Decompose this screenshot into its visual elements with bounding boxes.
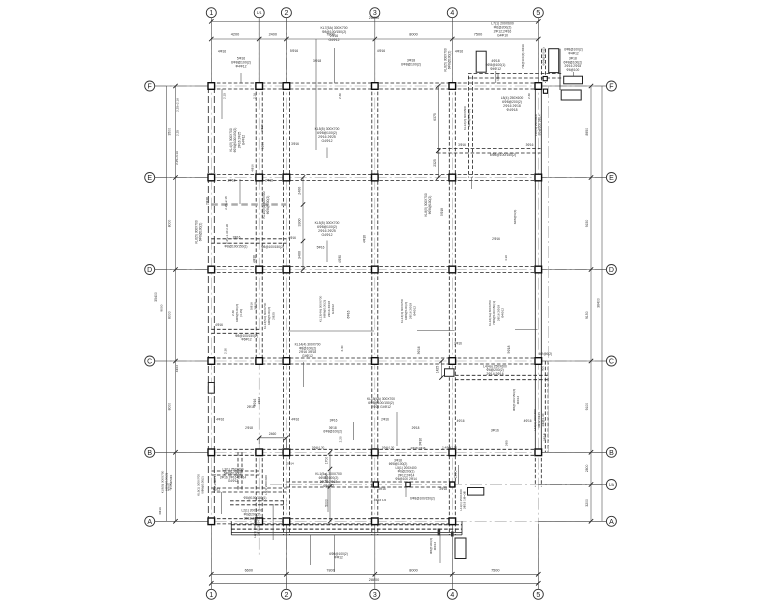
grid bubble 4 (top) bbox=[447, 8, 457, 18]
svg-text:4Φ18: 4Φ18 bbox=[363, 235, 367, 243]
svg-text:4Φ16: 4Φ16 bbox=[175, 364, 179, 372]
svg-text:1425: 1425 bbox=[436, 366, 440, 374]
leader KL1 B-A bbox=[327, 489, 329, 513]
svg-text:D: D bbox=[609, 267, 614, 274]
column 1/A bbox=[208, 518, 215, 525]
eave overhang line right of axis 5 bbox=[547, 86, 549, 452]
svg-text:6Φ8@100(2): 6Φ8@100(2) bbox=[323, 430, 342, 434]
svg-text:4Φ16: 4Φ16 bbox=[253, 255, 257, 263]
leader line below corridor bbox=[334, 535, 336, 572]
axis grid line 1 (vertical) bbox=[210, 18, 212, 590]
grid bubble 1/1 (top) bbox=[254, 8, 264, 18]
svg-text:F: F bbox=[609, 84, 613, 91]
axis grid line C (horizontal) bbox=[155, 360, 607, 362]
svg-text:3Φ16: 3Φ16 bbox=[417, 346, 421, 354]
svg-text:4Φ16: 4Φ16 bbox=[377, 49, 385, 53]
secondary beam y502.8 (bay 1-2 B-A) bbox=[230, 500, 286, 502]
svg-text:L6(1) 200X400: L6(1) 200X400 bbox=[264, 475, 268, 495]
svg-text:2Φ18: 2Φ18 bbox=[228, 179, 236, 183]
leader line bay 2-3 D-C down bbox=[303, 362, 305, 387]
svg-text:8000: 8000 bbox=[167, 311, 171, 319]
column 4/1-A bbox=[450, 482, 455, 487]
interior dim 1425 (C to beam) bbox=[441, 361, 443, 378]
axis grid line 1/1 (vertical) bbox=[258, 18, 260, 556]
axis grid line 3 (vertical) bbox=[374, 18, 376, 590]
svg-text:4: 4 bbox=[450, 592, 454, 599]
svg-text:9100: 9100 bbox=[585, 403, 589, 411]
column 5/F bbox=[535, 83, 542, 90]
column 5/E bbox=[535, 174, 542, 181]
column 2/D bbox=[283, 266, 290, 273]
svg-text:4200: 4200 bbox=[231, 32, 239, 36]
grid bubble A (left) bbox=[145, 516, 155, 526]
svg-text:6Φ8@100(2): 6Φ8@100(2) bbox=[201, 476, 205, 493]
svg-text:28800: 28800 bbox=[369, 578, 380, 582]
grid bubble D (right) bbox=[606, 265, 616, 275]
grid bubble 1/A (right) bbox=[606, 480, 616, 490]
right dimension chain lines bbox=[590, 86, 592, 521]
svg-text:4Φ16: 4Φ16 bbox=[455, 50, 463, 54]
roof extension wall x560 bbox=[559, 49, 561, 90]
grid bubble A (right) bbox=[606, 516, 616, 526]
top label leader x334 bbox=[334, 48, 336, 83]
svg-text:2000: 2000 bbox=[453, 470, 457, 478]
svg-text:6375: 6375 bbox=[433, 113, 437, 121]
svg-text:6Φ@0(2): 6Φ@0(2) bbox=[539, 352, 552, 356]
grid bubble 2 (top) bbox=[281, 8, 291, 18]
svg-text:2Φ16: 2Φ16 bbox=[492, 237, 500, 241]
svg-text:2Φ16: 2Φ16 bbox=[206, 197, 210, 205]
svg-text:8000: 8000 bbox=[167, 403, 171, 411]
svg-text:28800: 28800 bbox=[369, 16, 380, 20]
svg-text:2Φ18 2Φ16: 2Φ18 2Φ16 bbox=[410, 446, 425, 450]
leader line D-C right wall bbox=[515, 329, 538, 331]
top extension lines from bubbles bbox=[210, 18, 212, 83]
svg-text:6Φ8@100(2): 6Φ8@100(2) bbox=[266, 196, 270, 215]
svg-text:6Φ8@100(2): 6Φ8@100(2) bbox=[448, 51, 452, 70]
svg-text:4.30: 4.30 bbox=[504, 255, 508, 261]
svg-text:F: F bbox=[148, 84, 152, 91]
column 5/C bbox=[535, 358, 542, 365]
svg-text:ΦΦ12: ΦΦ12 bbox=[516, 396, 520, 405]
dim 2000 (below B at axis 4) bbox=[458, 465, 460, 484]
grid bubble F (right) bbox=[606, 81, 616, 91]
svg-text:2460: 2460 bbox=[269, 432, 277, 436]
column 3/E bbox=[372, 174, 379, 181]
svg-text:G4Φ12: G4Φ12 bbox=[302, 354, 313, 358]
grid bubble 5 (top) bbox=[533, 8, 543, 18]
svg-text:6Φ8@0(2): 6Φ8@0(2) bbox=[513, 210, 517, 225]
stair opening rect 2 (above F) bbox=[549, 49, 559, 73]
svg-text:6600: 6600 bbox=[245, 569, 253, 573]
column 4/E bbox=[449, 174, 456, 181]
svg-text:2.30: 2.30 bbox=[527, 93, 531, 99]
bottom extension lines to bubbles bbox=[210, 524, 212, 589]
svg-text:1/A: 1/A bbox=[609, 483, 615, 487]
column 1/E bbox=[208, 174, 215, 181]
svg-text:8000: 8000 bbox=[409, 569, 417, 573]
svg-text:4: 4 bbox=[450, 10, 454, 17]
svg-text:2400: 2400 bbox=[298, 187, 302, 195]
svg-text:2Φ18: 2Φ18 bbox=[412, 426, 420, 430]
svg-text:2.25Φ5ΦX: 2.25Φ5ΦX bbox=[169, 475, 173, 490]
beam along axis E bbox=[211, 174, 538, 176]
column 1/B bbox=[208, 449, 215, 456]
svg-text:3Φ16: 3Φ16 bbox=[458, 143, 466, 147]
wall beam along axis 1 bbox=[207, 86, 209, 521]
secondary beam below C (bay 4-5) bbox=[455, 374, 548, 376]
leader KL15 C-B bbox=[396, 412, 398, 446]
grid bubble B (left) bbox=[145, 447, 155, 457]
equipment pad rect (F right) bbox=[564, 76, 583, 84]
dim 2460 (bay 1-2 C-B) bbox=[259, 437, 286, 439]
secondary beam y241 (bay 1-2) bbox=[211, 238, 286, 240]
svg-text:6Φ8@100/150(2): 6Φ8@100/150(2) bbox=[410, 497, 435, 501]
svg-text:G4Φ10: G4Φ10 bbox=[497, 34, 508, 38]
svg-text:2Φ18: 2Φ18 bbox=[265, 179, 273, 183]
equipment pad rect 2 (below F right) bbox=[561, 90, 581, 100]
svg-text:Φ6@100: Φ6@100 bbox=[566, 68, 579, 72]
svg-text:4Φ16: 4Φ16 bbox=[524, 419, 532, 423]
svg-text:E: E bbox=[147, 175, 152, 182]
svg-text:3Φ16: 3Φ16 bbox=[378, 487, 386, 491]
svg-text:9150: 9150 bbox=[585, 220, 589, 228]
svg-text:2.25+3.16: 2.25+3.16 bbox=[175, 151, 179, 165]
svg-text:9150: 9150 bbox=[585, 311, 589, 319]
svg-text:6Φ8@200(2): 6Φ8@200(2) bbox=[467, 109, 471, 127]
leader line bay 2-3 D-C bbox=[288, 330, 374, 332]
svg-text:2Φ16: 2Φ16 bbox=[261, 141, 265, 149]
top label leader x241 bbox=[240, 73, 242, 83]
svg-text:G4Φ12: G4Φ12 bbox=[329, 38, 340, 42]
axis grid line B (horizontal) bbox=[155, 451, 607, 453]
svg-text:A: A bbox=[609, 519, 614, 526]
column 3/1-A bbox=[373, 482, 378, 487]
svg-text:4Φ16: 4Φ16 bbox=[288, 236, 296, 240]
grid bubble E (right) bbox=[606, 173, 616, 183]
grid bubble C (left) bbox=[145, 356, 155, 366]
top label leader x573 bbox=[573, 72, 575, 76]
axis grid line 4 (vertical) bbox=[451, 18, 453, 590]
beam along axis D bbox=[211, 266, 538, 268]
beam along axis 1/A bbox=[286, 481, 455, 483]
svg-text:Φ8@100/150(2): Φ8@100/150(2) bbox=[261, 245, 284, 249]
grid bubble E (left) bbox=[145, 173, 155, 183]
svg-text:Φ8@100/150(1): Φ8@100/150(1) bbox=[225, 245, 248, 249]
svg-text:2Φ14;2Φ16: 2Φ14;2Φ16 bbox=[486, 372, 503, 376]
axis grid line 5 (vertical) bbox=[537, 18, 539, 590]
svg-text:4Φ16: 4Φ16 bbox=[251, 164, 255, 172]
axis grid line E (horizontal) bbox=[155, 177, 607, 179]
svg-text:2800: 2800 bbox=[585, 465, 589, 473]
wall stub square b bbox=[543, 89, 547, 93]
grid bubble D (left) bbox=[145, 265, 155, 275]
svg-text:2Φ25 G4Φ12: 2Φ25 G4Φ12 bbox=[371, 405, 391, 409]
svg-text:2Φ16: 2Φ16 bbox=[454, 342, 462, 346]
right extension lines to bubbles bbox=[538, 85, 606, 87]
grid bubble F (left) bbox=[145, 81, 155, 91]
grid bubble B (right) bbox=[606, 447, 616, 457]
leader line bay 3-4 D-C bbox=[417, 330, 455, 332]
svg-text:G4Φ12: G4Φ12 bbox=[331, 304, 335, 314]
column 1/1/C bbox=[256, 358, 263, 365]
svg-text:G4Φ12: G4Φ12 bbox=[322, 139, 333, 143]
svg-text:C: C bbox=[147, 359, 152, 366]
top segment dimension line bbox=[211, 38, 538, 40]
svg-text:36400: 36400 bbox=[597, 298, 601, 308]
axis grid line 1/A (horizontal) bbox=[270, 484, 606, 486]
column 1/1/B bbox=[256, 449, 263, 456]
secondary beam x546.7 (C-B) bbox=[544, 361, 546, 452]
leader line x316 (top) bbox=[315, 39, 317, 150]
svg-text:2.25Φ2.14: 2.25Φ2.14 bbox=[213, 474, 217, 488]
svg-text:2: 2 bbox=[284, 592, 288, 599]
column 3/B bbox=[372, 449, 379, 456]
grid bubble C (right) bbox=[606, 356, 616, 366]
grid bubble 5 (bottom) bbox=[533, 589, 543, 599]
leader line below corridor 3 bbox=[439, 535, 441, 563]
top label leader x495 bbox=[495, 71, 497, 83]
svg-text:5Φ@200 2Φ14: 5Φ@200 2Φ14 bbox=[538, 114, 542, 135]
grid bubble 3 (top) bbox=[370, 8, 380, 18]
column 2/B bbox=[283, 449, 290, 456]
column 3/A bbox=[372, 518, 379, 525]
svg-text:6Φ8@100(2): 6Φ8@100(2) bbox=[389, 462, 408, 466]
svg-text:2Φ18: 2Φ18 bbox=[245, 426, 253, 430]
grid bubble 2 (bottom) bbox=[281, 589, 291, 599]
svg-text:3: 3 bbox=[373, 592, 377, 599]
column 3/D bbox=[372, 266, 379, 273]
svg-text:2.25+2.18: 2.25+2.18 bbox=[224, 196, 228, 210]
beam along axis 4 bbox=[448, 86, 450, 535]
beam along axis 1/1 (B-A) bbox=[255, 452, 257, 521]
svg-text:Φ4Φ12: Φ4Φ12 bbox=[413, 306, 417, 316]
svg-text:G4Φ12: G4Φ12 bbox=[242, 135, 246, 146]
svg-text:3Φ16: 3Φ16 bbox=[526, 143, 534, 147]
svg-text:2Φ@1.30: 2Φ@1.30 bbox=[382, 446, 395, 450]
column 4/B bbox=[449, 449, 456, 456]
grid bubble 1 (top) bbox=[206, 8, 216, 18]
grid bubble 1 (bottom) bbox=[206, 589, 216, 599]
grid bubble 4 (bottom) bbox=[447, 589, 457, 599]
svg-text:2.25+2.16: 2.25+2.16 bbox=[176, 98, 180, 112]
beam along axis 1/1 (F-C) bbox=[255, 86, 257, 361]
roof extension wall verticals bbox=[541, 49, 543, 83]
svg-text:1600: 1600 bbox=[496, 74, 500, 81]
svg-text:7500: 7500 bbox=[491, 569, 499, 573]
svg-text:5Φ18: 5Φ18 bbox=[507, 345, 511, 353]
svg-text:8950: 8950 bbox=[585, 128, 589, 136]
beam along axis F bbox=[211, 82, 538, 84]
svg-text:2Φ5: 2Φ5 bbox=[505, 440, 509, 446]
svg-text:2Φ18 1Φ=3Φ: 2Φ18 1Φ=3Φ bbox=[463, 490, 467, 509]
svg-text:Φ4Φ12: Φ4Φ12 bbox=[235, 65, 246, 69]
beam along axis C bbox=[211, 357, 538, 359]
svg-text:1: 1 bbox=[209, 10, 213, 17]
svg-text:4Φ16: 4Φ16 bbox=[216, 417, 224, 421]
svg-text:Φ4Φ12: Φ4Φ12 bbox=[323, 484, 334, 488]
svg-text:3Φ18: 3Φ18 bbox=[254, 302, 258, 310]
leader KL5 F-E bbox=[326, 148, 328, 159]
stair opening rect 1 (above F) bbox=[476, 51, 486, 72]
svg-text:8000: 8000 bbox=[160, 304, 164, 311]
column 1/1/A bbox=[256, 518, 263, 525]
column stub 1/A bbox=[406, 482, 410, 486]
svg-text:3Φ18: 3Φ18 bbox=[313, 59, 321, 63]
svg-text:ΦΦ12: ΦΦ12 bbox=[433, 542, 437, 551]
stub leader below E at x471 bbox=[471, 177, 473, 189]
column 2/F bbox=[283, 83, 290, 90]
svg-text:A: A bbox=[147, 519, 152, 526]
svg-text:2400: 2400 bbox=[269, 32, 277, 36]
svg-text:2.15: 2.15 bbox=[223, 93, 227, 99]
svg-text:2Φ14: 2Φ14 bbox=[286, 461, 294, 465]
wall pier on axis 1 (C-B) bbox=[208, 383, 214, 394]
svg-text:6Φ8@100(2): 6Φ8@100(2) bbox=[199, 223, 203, 242]
svg-text:2.25: 2.25 bbox=[176, 130, 180, 136]
svg-text:5Φ16: 5Φ16 bbox=[317, 246, 325, 250]
arrow blob at band x439 bbox=[438, 529, 441, 536]
svg-text:3200: 3200 bbox=[585, 499, 589, 507]
svg-text:6Φ8@100(2): 6Φ8@100(2) bbox=[542, 48, 546, 66]
svg-text:2.20: 2.20 bbox=[338, 436, 342, 442]
pit rect below A bbox=[455, 538, 466, 559]
column 4/A bbox=[449, 518, 456, 525]
svg-text:ΦΦ12: ΦΦ12 bbox=[334, 556, 343, 560]
svg-text:3Φ16: 3Φ16 bbox=[330, 419, 338, 423]
opening square below C at axis 4 bbox=[445, 369, 455, 377]
axis grid line D (horizontal) bbox=[155, 269, 607, 271]
svg-text:3Φ16: 3Φ16 bbox=[291, 142, 299, 146]
svg-text:2Φ16: 2Φ16 bbox=[381, 417, 389, 421]
svg-text:1700: 1700 bbox=[325, 457, 329, 465]
svg-text:C: C bbox=[609, 359, 614, 366]
column 1/1/F bbox=[256, 83, 263, 90]
svg-text:3Φ16: 3Φ16 bbox=[419, 438, 423, 446]
leader bay 1-2 B-A x221 bbox=[220, 492, 222, 514]
beam along axis A bbox=[211, 518, 455, 520]
column 4/D bbox=[449, 266, 456, 273]
svg-text:3Φ16: 3Φ16 bbox=[158, 507, 162, 515]
svg-text:4Φ16 1/2: 4Φ16 1/2 bbox=[374, 498, 387, 502]
svg-text:6Φ8@100(2): 6Φ8@100(2) bbox=[401, 63, 421, 67]
bottom corridor band beams bbox=[231, 524, 462, 526]
svg-text:E: E bbox=[609, 175, 614, 182]
leader bay 1-2 B-A x273 bbox=[272, 504, 274, 540]
column 5/B bbox=[535, 449, 542, 456]
svg-text:Φ4Φ12: Φ4Φ12 bbox=[568, 52, 579, 56]
svg-text:2Φ@1.30: 2Φ@1.30 bbox=[312, 445, 325, 449]
wall beam axis 5 lower bbox=[534, 452, 536, 486]
axis grid line 2 (vertical) bbox=[285, 18, 287, 590]
column 1/C bbox=[208, 358, 215, 365]
svg-text:D: D bbox=[147, 267, 152, 274]
column 2/C bbox=[283, 358, 290, 365]
interior dim chain x303 (E-D) bbox=[302, 178, 304, 270]
svg-text:2.30: 2.30 bbox=[340, 345, 344, 351]
leader L5 B-1/A bbox=[405, 482, 407, 498]
top overall dimension line bbox=[211, 20, 538, 22]
svg-text:4Φ16: 4Φ16 bbox=[215, 323, 223, 327]
svg-text:6Φ16: 6Φ16 bbox=[346, 310, 350, 318]
leader line below corridor 2 bbox=[310, 535, 312, 565]
svg-text:Φ4Φ18: Φ4Φ18 bbox=[506, 108, 517, 112]
arrow blob at band x452 bbox=[451, 532, 454, 537]
svg-text:2Φ12 2Φ14: 2Φ12 2Φ14 bbox=[257, 520, 261, 536]
leader bay 1-2 F-E x222 bbox=[221, 89, 223, 119]
svg-text:2325: 2325 bbox=[433, 159, 437, 167]
svg-text:8000: 8000 bbox=[409, 32, 417, 36]
secondary beam y490 (bay 1-2 B-A) bbox=[211, 487, 286, 489]
grid bubble 3 (bottom) bbox=[370, 589, 380, 599]
beam along axis 2 bbox=[282, 86, 284, 535]
secondary beam x240 (B-490) bbox=[237, 452, 239, 490]
column 4/C bbox=[449, 358, 456, 365]
svg-text:5Φ16: 5Φ16 bbox=[290, 49, 298, 53]
svg-text:7800: 7800 bbox=[326, 569, 334, 573]
svg-text:Φ6Φ12: Φ6Φ12 bbox=[241, 338, 252, 342]
svg-text:35400: 35400 bbox=[154, 292, 158, 302]
column 2/A bbox=[283, 518, 290, 525]
wide slab band beam y204.5 (bay 1-2) bbox=[211, 203, 286, 206]
axis grid line F (horizontal) bbox=[155, 85, 607, 87]
svg-text:5: 5 bbox=[536, 592, 540, 599]
svg-text:2.30: 2.30 bbox=[223, 348, 227, 354]
svg-text:3Φ18: 3Φ18 bbox=[439, 487, 447, 491]
svg-text:8000: 8000 bbox=[167, 220, 171, 228]
column 4/F bbox=[449, 83, 456, 90]
bottom segment dimension line bbox=[211, 573, 538, 575]
opening rect below 1/A bbox=[468, 488, 484, 496]
svg-text:3500: 3500 bbox=[167, 128, 171, 136]
svg-text:Φ8@100/150(1): Φ8@100/150(1) bbox=[244, 496, 267, 500]
svg-text:4Φ16: 4Φ16 bbox=[218, 50, 226, 54]
svg-text:2.16: 2.16 bbox=[253, 93, 257, 99]
wall stub square a bbox=[543, 77, 547, 81]
svg-text:4Φ30: 4Φ30 bbox=[338, 255, 342, 263]
secondary beam y331 (bay 1-2 D-C) bbox=[211, 328, 259, 330]
beam along axis B bbox=[211, 448, 538, 450]
column 5/D bbox=[535, 266, 542, 273]
svg-text:G4Φ12: G4Φ12 bbox=[322, 233, 333, 237]
column 2/E bbox=[283, 174, 290, 181]
wall beam along axis 5 bbox=[534, 86, 536, 452]
svg-text:3Φ16: 3Φ16 bbox=[491, 429, 499, 433]
svg-text:2Φ@1.30: 2Φ@1.30 bbox=[541, 413, 545, 426]
svg-text:7500: 7500 bbox=[474, 32, 482, 36]
svg-text:3300: 3300 bbox=[298, 219, 302, 227]
svg-text:2: 2 bbox=[284, 10, 288, 17]
leader bay 1-2 E-D x240 bbox=[239, 179, 241, 204]
svg-text:5Φ18: 5Φ18 bbox=[440, 208, 444, 216]
svg-text:4Φ16: 4Φ16 bbox=[291, 417, 299, 421]
svg-text:2Φ16: 2Φ16 bbox=[257, 396, 261, 404]
interior dim chain x330 (B-A) bbox=[329, 452, 331, 521]
leader bay 2-3 C-B bbox=[353, 422, 355, 440]
axis grid line A (horizontal) bbox=[155, 520, 607, 522]
roof extension beam above F bbox=[468, 73, 563, 75]
svg-text:5: 5 bbox=[536, 10, 540, 17]
column 1/D bbox=[208, 266, 215, 273]
svg-text:1: 1 bbox=[209, 592, 213, 599]
svg-text:6Φ8@100(2): 6Φ8@100(2) bbox=[428, 196, 432, 215]
svg-text:2Φ1Φ: 2Φ1Φ bbox=[543, 432, 547, 441]
svg-text:B: B bbox=[609, 450, 614, 457]
left extension lines from bubbles bbox=[155, 85, 212, 87]
svg-text:Φ4Φ12: Φ4Φ12 bbox=[490, 67, 501, 71]
svg-text:2Φ25: 2Φ25 bbox=[271, 312, 275, 320]
secondary beam y473 (bay 1-2 B-A) bbox=[211, 470, 259, 472]
